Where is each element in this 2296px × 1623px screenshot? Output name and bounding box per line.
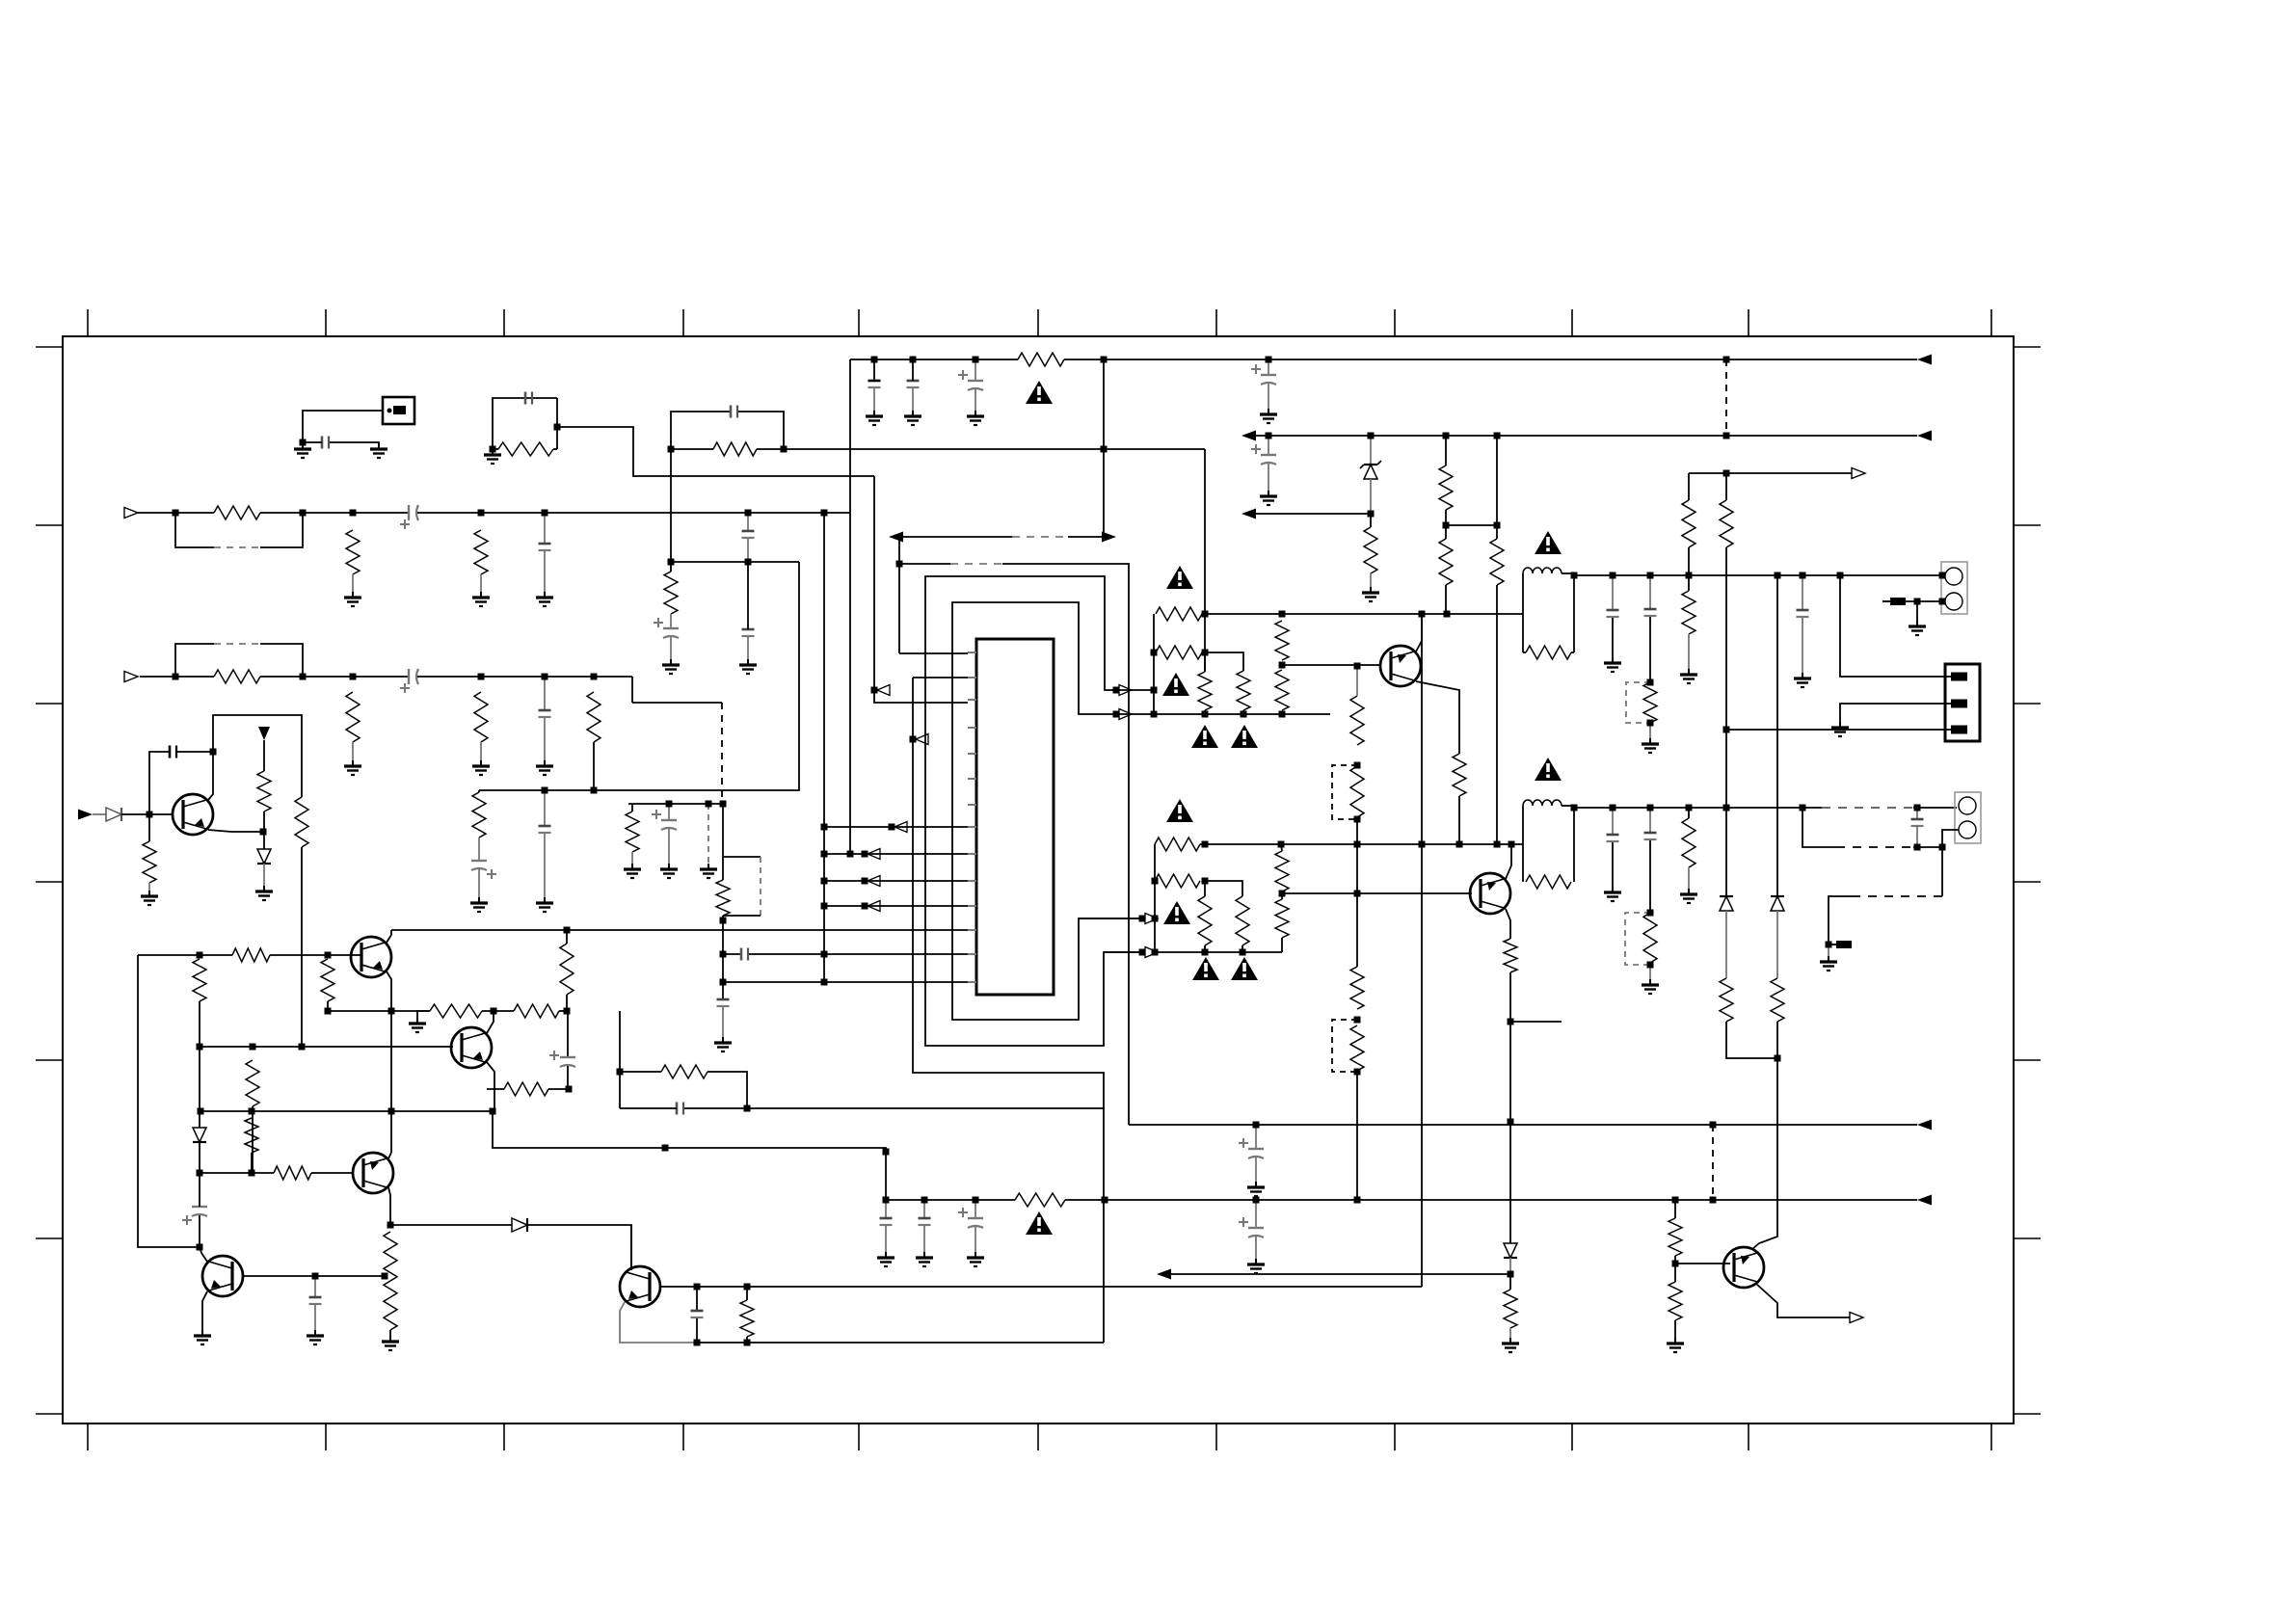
rail lower out b [1913,807,1957,809]
net terminal TL1 [877,685,890,696]
w [1674,1320,1676,1338]
w [865,853,968,855]
resistor R13 [664,572,678,614]
resistor R29 [1682,500,1695,547]
ground G16 [670,659,672,665]
w [314,1276,316,1297]
junction [745,510,752,517]
ground G39 [885,1252,887,1258]
resistor R28 [1682,591,1695,634]
xfmr right [1573,573,1575,652]
junction [1914,844,1921,851]
junction [325,1008,332,1015]
net 991b [270,954,361,956]
w [1649,723,1651,738]
emitter [620,1302,697,1343]
resistor R46 [1275,851,1289,891]
diode D8 [512,1218,527,1232]
capacitor C9 [740,948,743,961]
w [1268,436,1269,455]
ground G35 [416,1018,418,1024]
junction [910,736,917,743]
capacitor C38 [1797,609,1809,612]
junction [1571,805,1578,811]
w [199,1001,200,1047]
arrow terminal T1 [1917,355,1932,365]
wire [632,702,722,704]
net 637 [1205,613,1523,615]
collector low [1416,681,1459,754]
arrow net [1255,513,1371,515]
ground G20 [912,411,914,416]
wire [480,574,482,592]
long net [784,448,1205,450]
wire [757,448,784,450]
w [301,847,303,1047]
dashed bracket [760,857,761,916]
w [974,1200,976,1218]
w [620,1071,661,1073]
transistor Q2 [1470,873,1510,914]
w [1829,896,1860,945]
w [1688,547,1690,575]
lineA [1170,1273,1510,1275]
junction [1202,949,1209,956]
dashed bracket [1332,1020,1357,1072]
long vert 1791 [1725,547,1727,805]
transistor Q1 [1380,646,1421,686]
ground G41 [974,1252,976,1258]
wire [544,790,546,826]
wire [478,869,480,897]
w [1509,1258,1511,1274]
resistor R18 [1275,670,1289,710]
junction [1151,711,1158,718]
emitter [388,1187,390,1225]
w [1776,911,1778,978]
junction [554,424,561,431]
w [697,1342,1104,1344]
wire [628,803,723,805]
pulse generator box [383,397,414,424]
resistor R60 [274,1166,311,1180]
capacitor C8 [717,998,730,1001]
dashed [950,563,1002,565]
junction [617,1069,624,1076]
junction [1354,762,1361,769]
junction [1647,910,1654,917]
base net [1282,664,1380,666]
wire [303,411,383,442]
arrow line [1068,536,1103,538]
junction [197,1044,203,1051]
junction [299,1044,306,1051]
capacitor C2 [524,392,527,405]
junction [1444,611,1451,618]
step [631,677,633,703]
wire [1002,564,1129,1125]
ground G7 [352,760,354,766]
jog [493,1111,886,1200]
w [1241,945,1243,952]
transistor Q2a [351,937,391,977]
polarized capacitor C36 [1248,1227,1264,1229]
junction [1202,611,1209,618]
junction [1151,687,1158,694]
pin net [1726,729,1951,731]
resistor R9 [626,811,639,852]
resistor R3 [346,530,360,574]
arrow line dashed [1012,536,1068,538]
connector J2 pins [1951,673,1967,681]
dashed link [214,643,260,645]
w [1612,808,1614,835]
junction [198,1108,204,1115]
wire [899,563,950,565]
wire [260,513,303,547]
junction [1710,1122,1717,1129]
resistor R55 [321,959,334,1001]
wire [631,804,633,811]
resistor R59 [245,1118,258,1153]
wire [747,513,749,531]
junction [382,1273,388,1280]
connector J3 [1955,792,1981,843]
net terminal TR2 [1119,709,1132,720]
net terminal TL4 [868,849,880,860]
resistor R1 [498,442,553,456]
junction [325,952,332,959]
w [1941,847,1943,896]
w [923,1226,925,1252]
w [389,1330,391,1336]
jog [723,856,761,858]
ground G4 [352,592,354,598]
w [527,1225,631,1268]
w [696,1318,698,1343]
w [148,814,150,841]
junction [1368,433,1375,439]
resistor R62 [740,1300,754,1337]
w [1496,436,1498,525]
dashed [1860,895,1942,897]
wire [140,676,214,678]
wire [260,512,409,514]
junction [1354,663,1361,670]
resistor R47 [1275,899,1289,938]
wire [670,614,672,628]
wire [417,676,632,678]
junction [1672,1197,1679,1204]
junction [1279,662,1286,669]
wrap wire [913,678,1104,1343]
capacitor C17 [868,380,881,383]
net terminal TR3 [1145,914,1158,924]
link [1446,524,1497,526]
w [251,1153,253,1173]
junction [1508,1119,1514,1126]
jog [1205,881,1242,896]
w [1725,473,1727,500]
dashed drop [721,703,723,804]
junction [1253,1122,1260,1129]
ground G12 [707,864,709,869]
junction [1939,572,1946,579]
junction [1151,650,1158,656]
bypass loop [175,644,214,677]
w [1356,666,1358,696]
resistor R11 [472,792,486,838]
resistor R6 [346,692,360,742]
w [1370,573,1372,587]
polarized capacitor C13 [663,627,679,629]
ferrite bead FB2 [1836,941,1852,948]
resistor R25 [1350,1025,1364,1071]
net 491 [1689,472,1852,474]
line2 b [1065,1199,1917,1201]
dashed [707,804,709,864]
w [1571,652,1574,653]
wire [544,718,546,760]
w [1752,1022,1777,1249]
ground G2 [378,443,380,449]
junction [1354,1197,1361,1204]
resistor R61 [384,1232,397,1330]
wire [544,677,546,710]
rail [479,562,799,790]
capacitor C20 [1607,609,1619,612]
junction [1723,357,1730,363]
w [1725,805,1727,896]
w [1255,1200,1257,1228]
warning symbol W4 [1191,725,1218,748]
polarized capacitor C19 [968,380,983,382]
dashed [1712,1125,1714,1200]
junction [300,439,307,446]
w [1079,918,1139,919]
w [1255,1157,1257,1182]
w [974,1227,976,1252]
diode D6 [257,849,271,864]
w [567,1011,569,1057]
warning symbol W11 [1231,957,1258,980]
w [199,1142,200,1173]
warning symbol W12 [1026,1211,1053,1235]
w [1370,479,1372,514]
resistor R16 [1156,646,1202,659]
resistor R65 [1015,1193,1065,1207]
w [1688,634,1690,669]
resistor R19 [1198,672,1212,710]
w [1828,945,1829,956]
w [327,1001,329,1011]
resistor R54 [193,959,206,1001]
w [885,1200,887,1218]
collector [1416,614,1422,652]
resistor R58 [246,1060,259,1106]
polarized capacitor C31 [560,1056,575,1058]
bus [849,359,851,854]
junction [1800,572,1806,579]
junction [668,446,675,453]
resistor R33 [1439,539,1453,585]
net 1150 [747,1107,1105,1109]
wire [260,676,409,678]
junction [1279,891,1286,897]
IC U1 left pins [968,652,976,653]
resistor R44 [1198,896,1212,945]
w [263,811,265,832]
capacitor C11 [539,825,551,828]
capacitor C21 [1644,608,1657,611]
junction [744,1284,751,1290]
wire [352,574,354,592]
capacitor C15 [742,628,755,631]
junction [821,824,828,831]
capacitor C25 [1644,832,1657,835]
w [824,826,892,828]
w [199,1173,200,1207]
junction [1723,727,1730,733]
junction [250,1044,256,1051]
dashed [1836,846,1913,848]
w [1688,808,1690,818]
ground G38 [201,1330,203,1336]
junction [706,801,712,808]
capacitor C32 [880,1217,893,1220]
wire [670,637,672,659]
junction [1419,841,1426,848]
polarized capacitor C35 [1248,1148,1264,1150]
resistor R66 [560,944,574,995]
w [1916,601,1918,621]
junction [720,951,727,958]
open arrow IN2 [124,672,138,682]
resistor R15 [1156,607,1202,621]
w [1204,881,1206,896]
transistor Q4 [353,1153,393,1193]
transistor Q0 [173,794,213,835]
bus seg [1103,359,1105,449]
wire [544,550,546,592]
capacitor C14 [742,530,755,533]
wire [722,916,724,999]
net terminal TL2 [916,734,928,745]
pin net [1840,575,1951,677]
w [865,905,968,907]
w [1523,652,1526,653]
junction [1113,711,1120,718]
ground G34 [263,886,265,891]
junction [300,674,307,680]
loop [738,412,784,449]
base net [1282,892,1472,894]
junction [350,674,357,680]
rail lower out [1574,807,1822,809]
wire [417,512,850,514]
polarized capacitor C7 [661,819,677,821]
base [659,1286,1422,1288]
open arrow OA1 [1852,468,1865,479]
wire [671,448,713,450]
w [1370,514,1372,527]
stub [1510,1021,1562,1023]
junction [744,1105,751,1112]
w [974,389,976,411]
resistor R21 [1453,754,1466,796]
junction [910,357,917,363]
wire [668,829,670,864]
open arrow OA2 [1850,1313,1863,1323]
dashed link [214,546,260,548]
junction [1494,841,1501,848]
arrow terminal T2 [889,532,903,543]
warning symbol W7 [1535,758,1562,781]
wire [480,742,482,760]
junction [781,446,788,453]
w [1496,525,1498,539]
junction [1253,1197,1260,1204]
junction [1354,841,1361,848]
w [566,930,568,944]
junction [1202,841,1209,848]
junction [478,510,485,517]
rail upper out [1574,574,1945,576]
capacitor C24 [1607,834,1619,837]
resistor R64 [504,1082,548,1096]
w [199,1215,200,1247]
power arrow PA1 [258,727,270,740]
w [1445,510,1447,539]
net 1271 [390,1224,512,1226]
xfmr right [1573,806,1575,882]
net 1049c [559,1010,568,1012]
wire [670,449,672,572]
jog [1205,652,1243,671]
w [1725,911,1727,978]
net terminal TL6 [868,901,880,912]
resistor R63 [661,1065,707,1078]
resistor R50 [295,797,308,847]
w [548,1088,569,1090]
junction [720,979,727,986]
wire [898,537,900,653]
net 1049b [482,1010,514,1012]
junction [1610,805,1616,811]
emitter [208,830,263,832]
junction [694,1284,701,1290]
junction [1686,805,1693,811]
collector [630,1225,632,1270]
junction [1494,522,1501,529]
diode D5 [106,808,121,821]
ground G23 [1649,738,1651,744]
resistor R20 [1237,671,1250,710]
resistor R2 [214,506,260,519]
base [1675,1263,1730,1264]
w [746,1337,748,1343]
capacitor C29 [691,1310,704,1313]
bus 1554 [1496,585,1498,844]
junction [350,510,357,517]
ground G33 [148,891,150,896]
arrow terminal T9 [1917,1120,1932,1131]
transistor Q5 [202,1256,243,1296]
pin net [1840,704,1951,722]
w [1649,965,1651,979]
border frame [63,336,2014,1423]
resistor R34 [1490,539,1504,585]
